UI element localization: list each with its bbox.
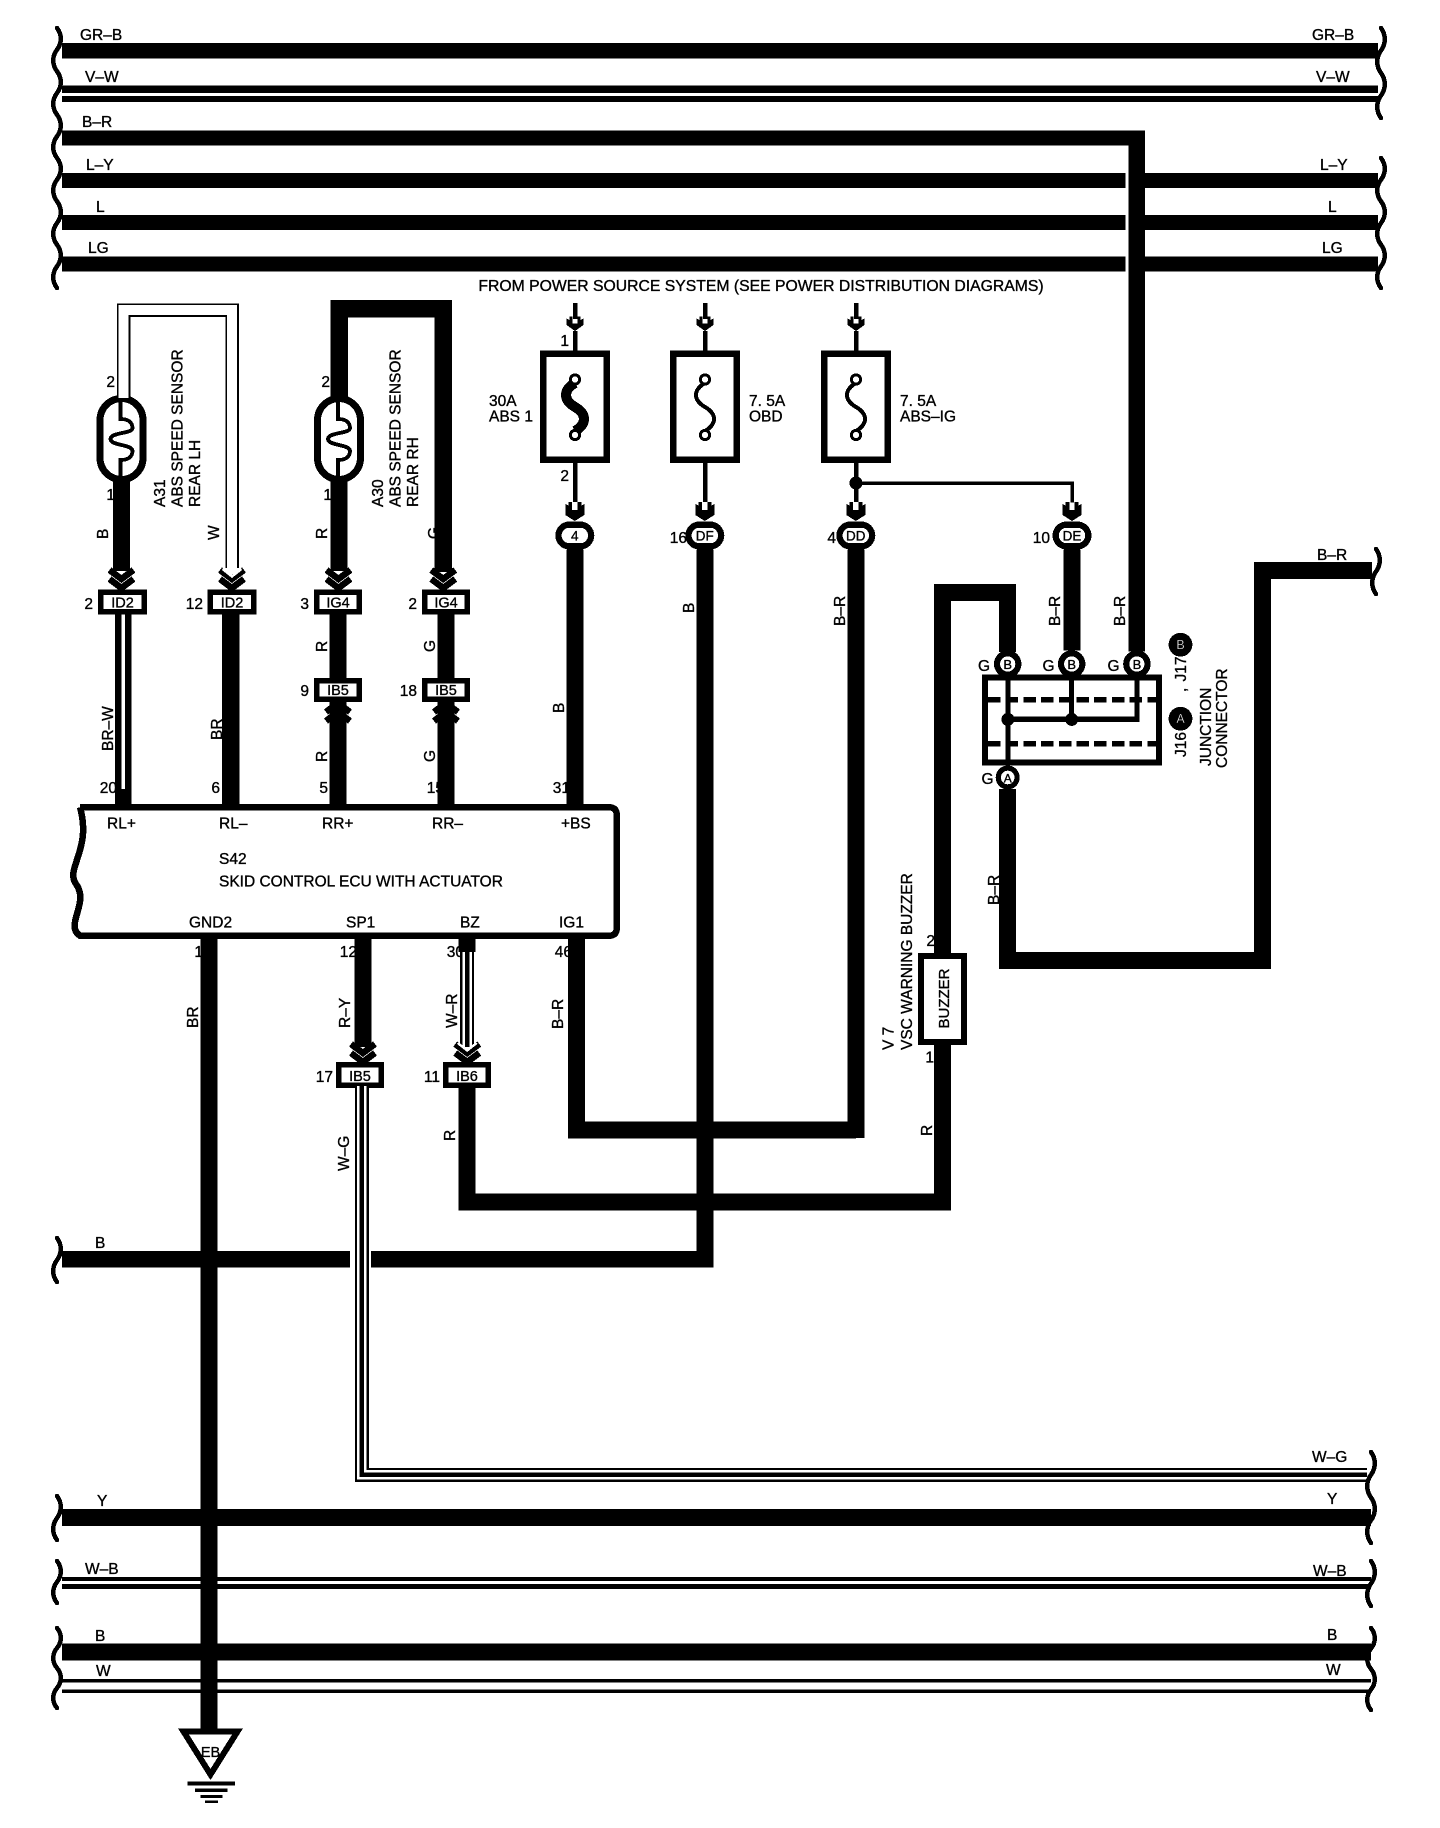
label wire R (IB6) (442, 1130, 459, 1141)
wire fuse ABS-IG pin1 stub (854, 331, 859, 351)
arrow into IB6 pin 11 (455, 1043, 479, 1062)
svg-text:SP1: SP1 (346, 915, 375, 932)
arrow into ID2 pin 2 (110, 570, 134, 588)
svg-text:G: G (1042, 658, 1054, 675)
arrow into IG4 pin 3 (327, 570, 351, 588)
node junction dot below ABS-IG fuse (850, 477, 863, 490)
wire bus B (bottom) (62, 1627, 1371, 1661)
svg-text:W–G: W–G (1312, 1449, 1347, 1466)
wire B-R vertical from top bus to J17 pin B (1125, 131, 1145, 652)
svg-text:B–R: B–R (832, 596, 849, 626)
svg-text:BUZZER: BUZZER (936, 968, 953, 1028)
ref A30 ABS SPEED SENSOR REAR RH (370, 349, 422, 507)
wire bus Y (62, 1491, 1371, 1526)
svg-text:J16: J16 (1173, 732, 1190, 757)
arrow into fuse OBD (697, 317, 714, 332)
svg-text:W: W (206, 525, 223, 540)
svg-text:REAR LH: REAR LH (187, 440, 204, 507)
svg-text:FROM POWER SOURCE SYSTEM (SEE: FROM POWER SOURCE SYSTEM (SEE POWER DIST… (478, 278, 1043, 295)
wire bus W (62, 1662, 1371, 1693)
svg-text:ABS SPEED SENSOR: ABS SPEED SENSOR (170, 349, 187, 507)
arrow up into IB5 pin 9 (326, 703, 350, 721)
ref A31 ABS SPEED SENSOR REAR LH (152, 349, 204, 507)
svg-text:W–G: W–G (336, 1136, 353, 1171)
arrow into connector 4 (565, 502, 584, 521)
junction connector J16/J17 box (985, 678, 1159, 763)
label wire B-R (DD) (832, 596, 849, 626)
svg-text:1: 1 (560, 333, 569, 350)
label wire BR-W (100, 706, 117, 751)
label pin 12 (ID2) (186, 596, 203, 613)
svg-text:VSC WARNING BUZZER: VSC WARNING BUZZER (899, 873, 916, 1050)
svg-text:B: B (1003, 657, 1012, 672)
label pin 3 (IG4) (300, 596, 309, 613)
svg-text:GR–B: GR–B (80, 27, 122, 44)
wire bus B-R (top) (62, 114, 1145, 146)
label ECU pin 20 (100, 780, 118, 797)
svg-text:2: 2 (84, 596, 93, 613)
svg-text:B: B (1176, 638, 1184, 652)
svg-text:20: 20 (100, 780, 118, 797)
wire W from A31 pin 2 to ID2 pin 12 (hollow) (124, 310, 233, 568)
label skid control ECU (219, 874, 503, 891)
svg-text:ABS–IG: ABS–IG (900, 409, 956, 426)
svg-text:DE: DE (1063, 529, 1082, 544)
ref J16 A . J17 B junction connector (1169, 633, 1231, 768)
node dot junction A-B (1001, 713, 1014, 726)
svg-text:Y: Y (97, 1493, 107, 1510)
wire G IG4 to IB5 (438, 615, 455, 679)
svg-text:L–Y: L–Y (86, 157, 114, 174)
label ECU pin 12 (340, 944, 357, 961)
wire into fuse ABS1 pin 1 (573, 303, 578, 319)
svg-text:W–R: W–R (444, 994, 461, 1028)
wire B from A31 pin 1 (113, 481, 130, 571)
svg-text:B–R: B–R (82, 114, 112, 131)
label wire W (206, 525, 223, 540)
svg-text:R–Y: R–Y (337, 998, 354, 1028)
label wire B-R (top vertical) (1112, 596, 1129, 626)
label fuse ABS1 pin 1 (560, 333, 569, 350)
fuse 7.5A ABS-IG (824, 354, 956, 460)
junction internal dashed row 1 (988, 697, 1156, 703)
svg-text:B: B (681, 603, 698, 613)
pin A of junction (996, 766, 1020, 790)
svg-text:V–W: V–W (1316, 69, 1350, 86)
pin BZ name (460, 915, 480, 932)
ground EB (184, 1732, 238, 1804)
svg-text:3: 3 (300, 596, 309, 613)
wire into fuse OBD (703, 303, 708, 319)
sensor A31 ABS speed sensor rear LH body (100, 398, 143, 480)
junction internal link B2 (1069, 677, 1074, 722)
svg-text:15: 15 (427, 780, 444, 797)
svg-text:G: G (1107, 658, 1119, 675)
connector IG4 pin 2 (422, 590, 470, 615)
label wire B-R (DE) (1047, 596, 1064, 626)
svg-text:ID2: ID2 (111, 596, 134, 612)
pin B (mid) of junction (1058, 650, 1086, 678)
label wire B-R (right break) (1317, 547, 1347, 564)
svg-text:2: 2 (926, 933, 935, 950)
pin B (right) of junction (1123, 650, 1151, 678)
halo W-G over B bus (350, 1249, 371, 1270)
label A31 pin 1 (106, 487, 115, 504)
bus break right (GR-B/V-W) (1377, 28, 1385, 118)
svg-text:V 7: V 7 (881, 1027, 898, 1050)
label A30 pin 2 (321, 374, 330, 391)
pin RR- name (432, 816, 463, 833)
svg-text:LG: LG (1322, 240, 1343, 257)
wire B-R from DD down (847, 550, 864, 1139)
svg-text:B–R: B–R (1112, 596, 1129, 626)
svg-text:Y: Y (1327, 1491, 1337, 1508)
wire R from A30 pin 1 (331, 481, 348, 571)
svg-text:18: 18 (400, 683, 417, 700)
pin +BS name (561, 816, 591, 833)
bus break left (W-B) (53, 1561, 61, 1603)
svg-text:12: 12 (340, 944, 357, 961)
buzzer V7 VSC warning buzzer (921, 944, 964, 1048)
svg-text:B: B (1067, 657, 1076, 672)
wire fuse ABS-IG pin 2 stub (854, 463, 859, 502)
svg-text:LG: LG (88, 240, 109, 257)
wire bus B (middle) (62, 1235, 713, 1268)
svg-text:GND2: GND2 (189, 915, 232, 932)
svg-text:RR–: RR– (432, 816, 463, 833)
wire R-Y SP1 to IB5 (355, 935, 372, 1047)
junction internal dashed row 2 (988, 741, 1156, 747)
pin IG1 name (559, 915, 584, 932)
svg-text:A: A (1176, 712, 1185, 726)
sensor A30 ABS speed sensor rear RH body (318, 398, 361, 480)
svg-text:B–R: B–R (550, 999, 567, 1029)
arrow into IG4 pin 2 (431, 570, 455, 588)
svg-text:DD: DD (846, 529, 866, 544)
svg-text:BR: BR (185, 1006, 202, 1028)
wire B +BS from connector 4 to ECU pin 31 (566, 550, 583, 805)
svg-text:W–B: W–B (1313, 1563, 1347, 1580)
svg-text:RL–: RL– (219, 816, 248, 833)
label A31 pin 2 (106, 374, 115, 391)
svg-text:6: 6 (211, 780, 220, 797)
wire fuse OBD pin1 stub (703, 331, 708, 351)
connector oval 4 (555, 522, 594, 550)
bus break left (B middle) (53, 1238, 61, 1282)
svg-text:2: 2 (106, 374, 115, 391)
svg-text:7. 5A: 7. 5A (749, 393, 786, 410)
label ECU pin 5 (319, 780, 328, 797)
svg-text:1: 1 (925, 1050, 934, 1067)
label buzzer pin 1 (925, 1050, 934, 1067)
svg-text:IB5: IB5 (435, 683, 457, 699)
svg-text:G: G (422, 750, 439, 762)
svg-text:SKID CONTROL ECU WITH ACTUATOR: SKID CONTROL ECU WITH ACTUATOR (219, 874, 503, 891)
svg-text:B: B (95, 529, 112, 539)
wire B-R from J16 pin A to break (1008, 571, 1372, 961)
wire BR GND2 over buses (201, 1240, 218, 1734)
label wire W-G (left) (336, 1136, 353, 1171)
label pin 16 (DF) (670, 530, 687, 547)
pin GND2 name (189, 915, 232, 932)
svg-text:L–Y: L–Y (1320, 157, 1348, 174)
svg-text:R: R (314, 641, 331, 652)
label pin 10 (DE) (1033, 530, 1051, 547)
label wire B (A31) (95, 529, 112, 539)
wire BR from ID2 to ECU pin 6 (222, 615, 240, 805)
label ECU pin 30 (447, 944, 465, 961)
pin B (left) of junction (994, 650, 1022, 678)
label wire BR (209, 718, 226, 740)
junction internal bus A (1005, 677, 1010, 764)
connector ID2 pin 12 (208, 590, 257, 615)
label wire W-G (right) (1312, 1449, 1347, 1466)
label wire G (IG4-IB5) (422, 640, 439, 652)
svg-text:IG4: IG4 (326, 596, 349, 612)
svg-text:V–W: V–W (85, 69, 119, 86)
wire fuse OBD pin 2 stub (703, 463, 708, 502)
wire fuse ABS1 pin 2 stub (573, 463, 578, 502)
label ECU pin 46 (555, 944, 572, 961)
svg-text:,: , (1173, 688, 1190, 692)
label wire R (A30) (314, 528, 331, 539)
bus break right (W-G/Y) (1367, 1452, 1375, 1543)
svg-text:W: W (1326, 1662, 1341, 1679)
svg-text:RL+: RL+ (107, 816, 136, 833)
svg-text:10: 10 (1033, 530, 1051, 547)
label ECU pin 1 (194, 944, 203, 961)
arrow up into IB5 pin 18 (434, 703, 458, 721)
svg-text:L: L (1328, 199, 1337, 216)
fuse 7.5A OBD (673, 354, 786, 460)
connector IB5 pin 9 (314, 678, 362, 702)
label wire R (IG4-IB5) (314, 641, 331, 652)
svg-text:J17: J17 (1173, 657, 1190, 682)
svg-text:G: G (981, 771, 993, 788)
svg-text:BZ: BZ (460, 915, 480, 932)
label wire BR (GND2) (185, 1006, 202, 1028)
junction internal link B3 (1134, 677, 1139, 722)
connector oval DE pin 10 (1053, 522, 1092, 550)
label pin 2 (ID2) (84, 596, 93, 613)
wire bus L-Y (top) (62, 157, 1378, 188)
label pin 11 (IB6) (424, 1069, 440, 1086)
wire B-R from DE to J17 pin B (1064, 550, 1081, 651)
wire BR-W from ID2 to ECU pin 20 (115, 615, 132, 806)
svg-text:IB5: IB5 (349, 1069, 371, 1085)
svg-text:JUNCTION: JUNCTION (1198, 688, 1215, 766)
bus break left (top) (53, 28, 61, 288)
bus break right (B/W bottom) (1367, 1628, 1375, 1710)
svg-text:7. 5A: 7. 5A (900, 393, 937, 410)
wire fuse ABS1 pin1 stub (573, 331, 578, 351)
svg-text:IG1: IG1 (559, 915, 584, 932)
wire BR GND2 to ground (201, 935, 218, 1732)
connector oval DF pin 16 (685, 522, 724, 550)
wire W-R BZ to IB6 (459, 935, 476, 1047)
svg-text:OBD: OBD (749, 409, 783, 426)
pin RL- name (219, 816, 248, 833)
svg-text:IG4: IG4 (434, 596, 457, 612)
svg-text:2: 2 (408, 596, 417, 613)
bus break right (W-B) (1367, 1561, 1375, 1606)
svg-text:A31: A31 (152, 479, 169, 507)
wire W-G from IB5 down and right to break (362, 1086, 1367, 1475)
arrow into connector DF (695, 502, 714, 521)
svg-text:REAR RH: REAR RH (405, 437, 422, 507)
svg-text:2: 2 (321, 374, 330, 391)
wire bus LG (top) (62, 240, 1378, 272)
svg-text:9: 9 (300, 683, 309, 700)
svg-text:B–R: B–R (1317, 547, 1347, 564)
label wire B (DF) (681, 603, 698, 613)
wire B from DF down to B bus (696, 550, 713, 1268)
wire break B-R right (1372, 549, 1380, 594)
svg-text:DF: DF (696, 529, 714, 544)
label pin 9 (IB5) (300, 683, 309, 700)
label wire B-R (IG1) (550, 999, 567, 1029)
bus break left (Y) (53, 1496, 61, 1540)
svg-text:A: A (1004, 771, 1012, 785)
svg-text:12: 12 (186, 596, 203, 613)
svg-text:16: 16 (670, 530, 687, 547)
label pin 4 (DD) (827, 530, 836, 547)
connector IB5 pin 18 (422, 678, 470, 702)
svg-text:30A: 30A (489, 393, 517, 410)
svg-text:CONNECTOR: CONNECTOR (1214, 668, 1231, 768)
svg-text:IB6: IB6 (456, 1069, 478, 1085)
IC S42 skid control ECU with actuator box (73, 807, 616, 936)
svg-text:L: L (96, 199, 105, 216)
svg-text:G: G (422, 640, 439, 652)
label wire B (+BS) (551, 703, 568, 713)
svg-text:ABS SPEED SENSOR: ABS SPEED SENSOR (388, 349, 405, 507)
label wire R (buzzer) (919, 1125, 936, 1136)
label ECU pin 31 (553, 780, 570, 797)
label wire B-R (J16 A) (986, 875, 1003, 905)
svg-text:4: 4 (827, 530, 836, 547)
svg-text:R: R (919, 1125, 936, 1136)
svg-text:B: B (1133, 657, 1142, 672)
svg-text:+BS: +BS (561, 816, 591, 833)
label buzzer pin 2 (926, 933, 935, 950)
node dot junction B2 (1065, 713, 1078, 726)
arrow into fuse ABS1 (567, 317, 584, 332)
svg-text:A30: A30 (370, 479, 387, 507)
arrow into connector DE (1063, 502, 1082, 521)
svg-text:EB: EB (201, 1745, 220, 1761)
wire G loop from A30 pin 2 to IG4 pin 2 (339, 309, 443, 572)
label pin 17 (IB5) (316, 1069, 333, 1086)
svg-text:RR+: RR+ (322, 816, 353, 833)
arrow into ID2 pin 12 (220, 569, 244, 588)
label G (B right) (1107, 658, 1119, 675)
svg-text:BR: BR (209, 718, 226, 740)
connector oval DD pin 4 (836, 522, 875, 550)
label wire R-Y (337, 998, 354, 1028)
wire bus L (top) (62, 199, 1378, 230)
pin RL+ name (107, 816, 136, 833)
wire buzzer top to J16 pin B (943, 593, 1008, 953)
bus break right (L-Y/L/LG) (1377, 158, 1385, 288)
wire bus GR-B (top) (62, 27, 1378, 59)
pin SP1 name (346, 915, 375, 932)
svg-text:B–R: B–R (986, 875, 1003, 905)
connector IG4 pin 3 (314, 590, 362, 615)
svg-text:B: B (551, 703, 568, 713)
svg-text:BR–W: BR–W (100, 706, 117, 751)
note from power source (478, 278, 1043, 295)
label ECU pin 6 (211, 780, 220, 797)
svg-text:R: R (314, 528, 331, 539)
svg-text:B–R: B–R (1047, 596, 1064, 626)
svg-text:17: 17 (316, 1069, 333, 1086)
fuse 30A ABS 1 (489, 354, 607, 460)
connector IB6 pin 11 (443, 1062, 491, 1088)
svg-text:W–B: W–B (85, 1561, 119, 1578)
pin RR+ name (322, 816, 353, 833)
svg-text:R: R (314, 751, 331, 762)
svg-text:S42: S42 (219, 851, 247, 868)
wire B-R IG1 to DD line (577, 935, 856, 1135)
label wire G (to ECU 15) (422, 750, 439, 762)
connector IB5 pin 17 (336, 1062, 384, 1088)
junction internal bus horizontal (1005, 717, 1139, 723)
wire W-G vertical over B bus (355, 1240, 369, 1282)
arrow into fuse ABS-IG (848, 317, 865, 332)
wire R IB5 to ECU pin 5 (330, 702, 347, 805)
svg-text:GR–B: GR–B (1312, 27, 1354, 44)
wire into fuse ABS-IG (854, 303, 859, 319)
bus break left (B/W bottom) (53, 1628, 61, 1708)
wire bus V-W (top, striped) (62, 69, 1378, 102)
svg-text:B: B (95, 1628, 105, 1645)
label G (B left) (978, 658, 990, 675)
svg-text:ABS 1: ABS 1 (489, 409, 533, 426)
svg-text:ID2: ID2 (221, 596, 244, 612)
ref V7 VSC WARNING BUZZER (881, 873, 917, 1050)
label wire W-R (444, 994, 461, 1028)
label wire R (to ECU 5) (314, 751, 331, 762)
svg-text:4: 4 (571, 529, 579, 544)
svg-text:R: R (442, 1130, 459, 1141)
label pin 18 (IB5) (400, 683, 417, 700)
svg-text:IB5: IB5 (327, 683, 349, 699)
label A30 pin 1 (323, 487, 332, 504)
svg-text:B: B (1327, 1627, 1337, 1644)
connector ID2 pin 2 (98, 590, 147, 615)
label ECU pin 15 (427, 780, 444, 797)
wire R IG4 to IB5 (330, 615, 347, 679)
svg-text:G: G (426, 527, 443, 539)
label G (B mid) (1042, 658, 1054, 675)
svg-text:B: B (95, 1235, 105, 1252)
svg-text:2: 2 (560, 468, 569, 485)
label wire G (A30) (426, 527, 443, 539)
svg-text:W: W (96, 1663, 111, 1680)
label fuse ABS1 pin 2 (560, 468, 569, 485)
svg-text:5: 5 (319, 780, 328, 797)
label pin 2 (IG4) (408, 596, 417, 613)
arrow into connector DD (846, 502, 865, 521)
wire bus W-B (62, 1561, 1371, 1589)
label G (A) (981, 771, 993, 788)
arrow into IB5 pin 17 (351, 1044, 375, 1062)
svg-text:11: 11 (424, 1069, 440, 1086)
svg-text:31: 31 (553, 780, 570, 797)
wire R from IB6 to buzzer (467, 1040, 943, 1202)
wire G IB5 to ECU pin 15 (438, 702, 455, 805)
